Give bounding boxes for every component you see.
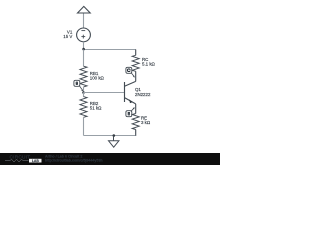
node E pill (126, 107, 135, 116)
svg-text:http://circuitlab.com/c/5j9444: http://circuitlab.com/c/5j9444y53h (45, 159, 103, 163)
svg-text:3 kΩ: 3 kΩ (141, 120, 151, 125)
svg-text:5.1 kΩ: 5.1 kΩ (142, 61, 156, 66)
footer logo CIRCUIT LAB (5, 154, 42, 163)
resistor RE (132, 114, 139, 136)
wire: rail down to RB1 (83, 50, 85, 67)
wire: V1 bottom to junction (83, 42, 85, 50)
svg-text:LAB: LAB (32, 159, 40, 163)
node B pill (74, 80, 83, 91)
footer bar (0, 153, 220, 165)
wire: RB1 bottom to base junction (83, 87, 85, 93)
resistor RB1 (80, 66, 87, 87)
wire: emitter down (135, 104, 137, 114)
svg-text:15 V: 15 V (63, 34, 72, 39)
node junction at V1/rail (82, 48, 85, 51)
resistor RC (132, 50, 139, 82)
svg-text:2N2222: 2N2222 (135, 92, 151, 97)
emitter arrow (129, 99, 133, 103)
wire: base (84, 92, 125, 94)
transistor Q1 (125, 81, 136, 104)
svg-text:51 kΩ: 51 kΩ (90, 105, 102, 110)
resistor RB2 (80, 93, 87, 136)
node junction ground (113, 134, 116, 137)
svg-text:100 kΩ: 100 kΩ (90, 75, 105, 80)
power flag VCC (triangle) (78, 6, 91, 13)
ground (109, 136, 119, 148)
wire: top rail (84, 49, 137, 51)
wire: VCC flag stub (83, 13, 85, 28)
node junction B (82, 91, 85, 94)
svg-text:CIRCUIT: CIRCUIT (10, 154, 31, 160)
voltage source V1 (77, 28, 91, 42)
node C pill (126, 67, 135, 77)
wire: bottom rail (84, 135, 137, 137)
